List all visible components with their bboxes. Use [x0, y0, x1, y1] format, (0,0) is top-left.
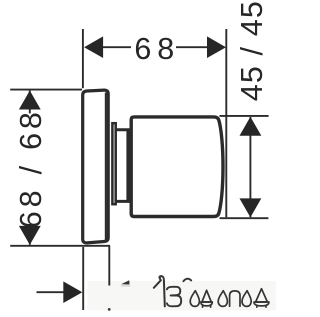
svg-text:68 / 68: 68 / 68 — [14, 108, 48, 228]
svg-text:45 / 45: 45 / 45 — [235, 0, 269, 101]
svg-text:68: 68 — [134, 32, 180, 66]
